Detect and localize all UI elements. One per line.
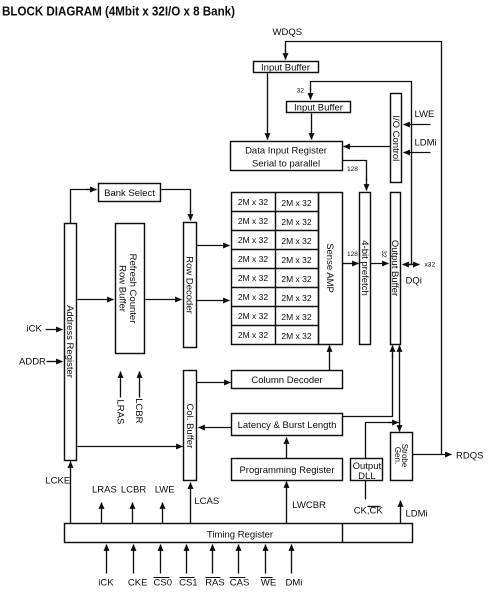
svg-text:2M x 32: 2M x 32 bbox=[281, 293, 312, 303]
svg-text:Col. Buffer: Col. Buffer bbox=[184, 404, 195, 449]
svg-text:LWE: LWE bbox=[415, 109, 435, 120]
svg-text:LDMi: LDMi bbox=[415, 138, 437, 149]
svg-text:4-bit prefetch: 4-bit prefetch bbox=[359, 240, 370, 295]
svg-text:DQi: DQi bbox=[406, 276, 422, 287]
svg-text:2M x 32: 2M x 32 bbox=[281, 198, 312, 208]
svg-text:LRAS: LRAS bbox=[92, 485, 117, 496]
svg-text:2M x 32: 2M x 32 bbox=[238, 311, 269, 321]
svg-text:2M x 32: 2M x 32 bbox=[281, 236, 312, 246]
svg-text:128: 128 bbox=[347, 251, 358, 258]
svg-text:Address Register: Address Register bbox=[64, 305, 75, 378]
svg-text:Row Decoder: Row Decoder bbox=[184, 256, 195, 314]
svg-text:x32: x32 bbox=[425, 262, 436, 269]
svg-text:Latency & Burst Length: Latency & Burst Length bbox=[238, 420, 337, 431]
svg-text:2M x 32: 2M x 32 bbox=[238, 197, 269, 207]
svg-text:LCBR: LCBR bbox=[133, 398, 144, 423]
svg-text:WE: WE bbox=[261, 578, 276, 589]
svg-text:2M x 32: 2M x 32 bbox=[238, 292, 269, 302]
svg-text:Input Buffer: Input Buffer bbox=[294, 103, 343, 114]
svg-text:LRAS: LRAS bbox=[115, 400, 126, 425]
svg-text:WDQS: WDQS bbox=[273, 27, 303, 38]
svg-text:Output Buffer: Output Buffer bbox=[389, 240, 400, 296]
svg-text:2M x 32: 2M x 32 bbox=[238, 235, 269, 245]
svg-text:CAS: CAS bbox=[230, 578, 250, 589]
svg-text:LDMi: LDMi bbox=[406, 509, 428, 520]
svg-text:CS1: CS1 bbox=[179, 578, 197, 589]
svg-text:iCK: iCK bbox=[98, 578, 114, 589]
svg-text:Timing Register: Timing Register bbox=[207, 530, 273, 541]
svg-text:2M x 32: 2M x 32 bbox=[281, 255, 312, 265]
svg-text:Serial to parallel: Serial to parallel bbox=[252, 159, 320, 170]
svg-text:2M x 32: 2M x 32 bbox=[238, 273, 269, 283]
svg-text:RDQS: RDQS bbox=[456, 451, 483, 462]
svg-text:128: 128 bbox=[347, 166, 358, 173]
svg-text:32: 32 bbox=[297, 88, 305, 95]
svg-text:32: 32 bbox=[380, 250, 387, 258]
svg-text:CKE: CKE bbox=[128, 578, 148, 589]
svg-text:LWE: LWE bbox=[155, 485, 175, 496]
svg-text:2M x 32: 2M x 32 bbox=[238, 330, 269, 340]
svg-text:LCAS: LCAS bbox=[194, 496, 219, 507]
svg-text:LWCBR: LWCBR bbox=[292, 500, 326, 511]
svg-text:2M x 32: 2M x 32 bbox=[281, 331, 312, 341]
svg-text:RAS: RAS bbox=[205, 578, 225, 589]
svg-text:LCBR: LCBR bbox=[121, 485, 146, 496]
svg-text:2M x 32: 2M x 32 bbox=[238, 254, 269, 264]
svg-text:CS0: CS0 bbox=[154, 578, 172, 589]
svg-text:2M x 32: 2M x 32 bbox=[281, 312, 312, 322]
svg-text:2M x 32: 2M x 32 bbox=[238, 216, 269, 226]
svg-text:Column Decoder: Column Decoder bbox=[251, 375, 322, 386]
svg-text:ADDR: ADDR bbox=[19, 357, 46, 368]
svg-text:DMi: DMi bbox=[286, 578, 303, 589]
svg-text:Row Buffer: Row Buffer bbox=[117, 265, 128, 312]
svg-text:I/O Control: I/O Control bbox=[390, 115, 401, 161]
svg-text:BLOCK DIAGRAM (4Mbit x 32I/O x: BLOCK DIAGRAM (4Mbit x 32I/O x 8 Bank) bbox=[2, 4, 235, 19]
svg-text:Bank Select: Bank Select bbox=[104, 188, 155, 199]
svg-text:Programming Register: Programming Register bbox=[239, 465, 334, 476]
svg-text:Gen.: Gen. bbox=[393, 447, 402, 464]
svg-text:Sense AMP: Sense AMP bbox=[324, 243, 335, 293]
svg-text:Data Input Register: Data Input Register bbox=[245, 146, 327, 157]
svg-text:Input Buffer: Input Buffer bbox=[261, 63, 310, 74]
svg-text:iCK: iCK bbox=[27, 324, 43, 335]
svg-text:LCKE: LCKE bbox=[45, 476, 70, 487]
svg-text:DLL: DLL bbox=[358, 471, 375, 482]
svg-text:2M x 32: 2M x 32 bbox=[281, 217, 312, 227]
svg-text:2M x 32: 2M x 32 bbox=[281, 274, 312, 284]
